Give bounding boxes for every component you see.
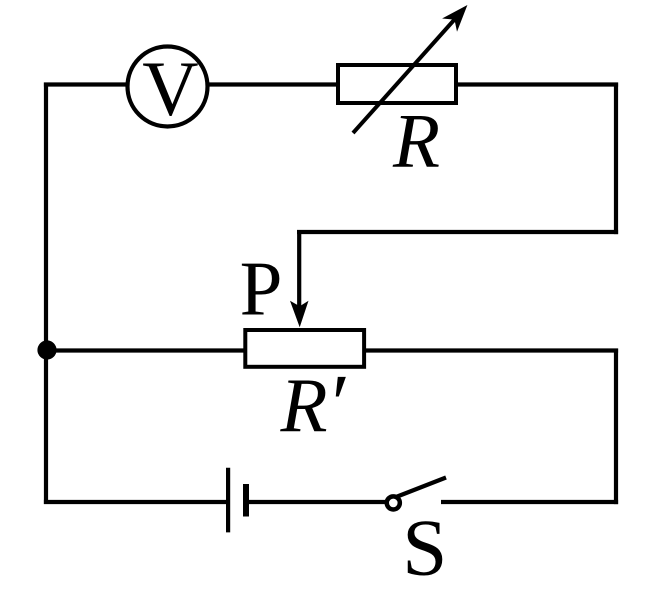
- svg-text:P: P: [240, 245, 283, 331]
- voltmeter V: [128, 47, 208, 127]
- switch S: [387, 478, 446, 510]
- resistor R (variable rheostat): [338, 5, 467, 133]
- wire: middle horizontal through potentiometer: [44, 348, 618, 352]
- svg-text:R: R: [392, 98, 440, 184]
- wire: bottom horizontal between battery and switch: [246, 500, 387, 504]
- svg-text:V: V: [142, 45, 198, 132]
- wire: right vertical upper segment: [614, 83, 618, 235]
- wire: bottom horizontal right of switch: [441, 500, 618, 504]
- wire: upper middle horizontal (to wiper arrow): [297, 230, 618, 234]
- wiper arrow P: [290, 230, 309, 327]
- svg-text:R: R: [280, 362, 328, 448]
- wire: right vertical lower segment: [614, 349, 618, 505]
- node: junction dot on left branch: [37, 340, 56, 359]
- potentiometer R': [245, 330, 364, 367]
- svg-text:′: ′: [332, 357, 350, 450]
- battery cell: [228, 468, 246, 533]
- svg-text:S: S: [402, 502, 447, 592]
- wire: top horizontal from left corner through voltmeter to R and right corner: [44, 82, 618, 86]
- wire: bottom horizontal left of battery: [44, 500, 228, 504]
- label R': [280, 357, 350, 450]
- wire: left vertical branch: [44, 83, 48, 505]
